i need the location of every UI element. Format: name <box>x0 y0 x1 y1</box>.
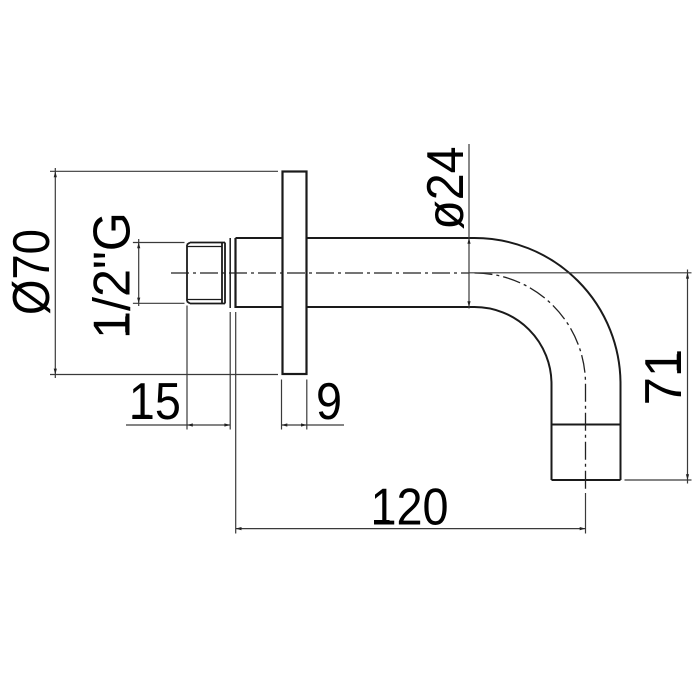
wall flange plate <box>283 172 307 375</box>
arrow Ø70 bottom <box>54 369 57 375</box>
serif foot of digit 1 in label 120 <box>374 520 390 524</box>
svg-text:Ø70: Ø70 <box>3 229 60 315</box>
arrow 1/2G bottom <box>137 298 140 304</box>
svg-text:71: 71 <box>633 349 692 406</box>
nipple left edge <box>186 245 188 302</box>
arrow ø24 bottom <box>467 301 470 307</box>
dimension Ø70 <box>50 168 278 378</box>
arrow 71 bottom <box>686 474 689 480</box>
nipple chamfer bottom-left <box>187 302 190 304</box>
thread crest bottom <box>190 303 225 305</box>
vertical pipe left edge <box>551 384 553 480</box>
serif foot of digit 1 in label 15 <box>133 415 150 419</box>
dimension 15 <box>126 306 230 430</box>
arrow 9 right <box>301 423 307 426</box>
nipple right end line 1 <box>221 243 223 304</box>
vertical pipe right edge <box>620 384 622 480</box>
nipple right end line 2 <box>224 243 226 304</box>
dimension 71 <box>469 270 692 484</box>
pipe top edge (right of flange) <box>307 237 475 239</box>
dimension ø24 <box>468 144 470 309</box>
spout end bottom edge <box>552 479 621 481</box>
threaded nipple <box>187 243 225 304</box>
horizontal centerline <box>171 272 469 274</box>
dimension 120 <box>236 312 586 534</box>
arrow 120 right <box>580 527 586 530</box>
pipe top edge (left of flange) <box>236 237 283 239</box>
bend inner arc <box>475 307 552 384</box>
serif foot of digit 1 in label 71 <box>677 354 681 370</box>
pipe bottom edge (left of flange) <box>236 306 283 308</box>
dimension 1/2"G <box>133 239 185 306</box>
nipple chamfer top-left <box>187 243 190 245</box>
arrow Ø70 top <box>54 171 57 177</box>
arrow 15 right <box>224 423 230 426</box>
arrow ø24 top <box>467 238 470 244</box>
thread crest top <box>190 242 225 244</box>
serif foot of digit 1 in label 1/2"G <box>125 316 129 332</box>
svg-text:120: 120 <box>371 478 449 536</box>
collar left line <box>229 238 231 308</box>
bend + vertical centerline <box>475 273 586 490</box>
centerlines <box>171 273 586 490</box>
thread root top <box>187 246 222 248</box>
svg-text:9: 9 <box>316 373 342 431</box>
pipe bottom edge (right of flange) <box>307 306 475 308</box>
arrow 15 left <box>187 423 193 426</box>
arrow 1/2G top <box>137 242 140 248</box>
arrow 71 top <box>686 273 689 279</box>
svg-text:ø24: ø24 <box>416 146 474 229</box>
bend outer arc <box>475 238 621 384</box>
collar right line <box>234 238 236 308</box>
thread root bottom <box>187 299 222 301</box>
collar <box>230 238 235 308</box>
arrow 120 left <box>236 527 242 530</box>
dimension 9 <box>282 380 345 430</box>
arrow 9 left <box>282 423 288 426</box>
svg-text:15: 15 <box>129 373 181 431</box>
spout end joint line <box>552 424 621 426</box>
svg-text:1/2"G: 1/2"G <box>83 212 141 339</box>
